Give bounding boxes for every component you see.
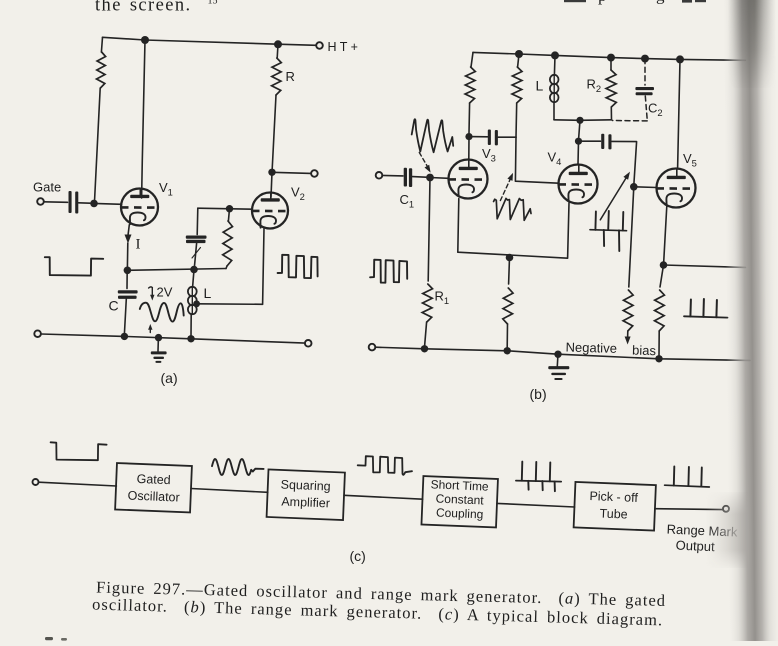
- svg-text:H T +: H T +: [328, 40, 358, 54]
- svg-text:Gated: Gated: [136, 472, 171, 487]
- label 2V with arrows: [148, 285, 173, 333]
- label I (cathode current): [136, 237, 141, 253]
- node rail-R junction (a): [274, 40, 282, 48]
- capacitor V3-V4 coupling: [488, 130, 498, 146]
- node V5 cathode junction: [660, 261, 668, 269]
- wire to range mark output: [655, 508, 723, 511]
- resistor V5 grid-leak to bias: [623, 187, 634, 345]
- waveform range marks (c): [665, 467, 710, 488]
- svg-text:15: 15: [208, 0, 218, 7]
- svg-text:I: I: [136, 237, 141, 253]
- wire V4 plate node to coupling cap 2: [579, 140, 601, 142]
- block Pick-off Tube: [574, 482, 656, 531]
- tube V5: [657, 169, 696, 208]
- capacitor grid coupling V2: [186, 208, 207, 267]
- svg-text:Squaring: Squaring: [280, 478, 331, 494]
- wire capacitor to grid node: [79, 202, 91, 204]
- label C1: [400, 192, 415, 210]
- svg-text:C: C: [109, 298, 119, 314]
- node rail-L junction (b): [551, 51, 559, 59]
- node V5 grid junction: [630, 183, 638, 191]
- resistor R1: [422, 178, 432, 347]
- svg-text:R: R: [286, 69, 295, 84]
- node V3 plate junction: [465, 133, 472, 140]
- wire plate node to V3: [468, 137, 470, 160]
- wire coupling cap to grid line: [498, 136, 516, 138]
- caption line 2: [92, 595, 663, 630]
- node rail-R2grid junction (b): [515, 50, 523, 58]
- wire L bottom to tank node: [554, 119, 580, 122]
- node bias junction: [506, 254, 514, 262]
- wire V5 cathode output: [664, 265, 746, 267]
- svg-text:g: g: [656, 0, 665, 5]
- wire V5 plate to rail: [678, 59, 680, 168]
- terminal rail right (a): [305, 340, 312, 347]
- resistor V5 cathode load: [655, 265, 665, 356]
- waveform square input (b): [370, 260, 407, 283]
- capacitor V4-V5 coupling: [601, 134, 611, 150]
- terminal input (b): [376, 172, 383, 179]
- terminal Gate input: [37, 198, 44, 205]
- label (a): [161, 370, 178, 386]
- label (b): [530, 386, 547, 402]
- node V2 grid junction: [226, 205, 233, 212]
- resistor V2 grid-leak: [223, 209, 233, 269]
- wire grid node to V5: [634, 186, 657, 189]
- label L (a): [204, 285, 212, 301]
- label R: [286, 69, 295, 84]
- wire input to C1: [382, 174, 403, 177]
- node rail-R2 junction (b): [607, 54, 615, 62]
- waveform square (c): [358, 456, 412, 475]
- wire rail to V1 plate: [142, 40, 145, 198]
- wire HT+ rail (a): [103, 37, 317, 45]
- node V3 grid junction (b): [426, 174, 434, 182]
- label V1: [159, 180, 173, 198]
- terminal rail left (b): [369, 344, 376, 351]
- wire V2 grid bus: [198, 208, 252, 209]
- resistor common cathode bias: [503, 258, 513, 348]
- waveform sawtooth at V4 grid: [494, 198, 531, 220]
- label Negative bias: [565, 340, 656, 359]
- label Gate: [33, 180, 61, 195]
- node rail-C2 junction (b): [641, 55, 649, 63]
- waveform pulses at V5 grid: [590, 211, 627, 251]
- node V1 grid junction: [90, 200, 98, 208]
- label V5: [683, 151, 697, 169]
- waveform 2V sine in tank: [140, 303, 184, 322]
- svg-text:Amplifier: Amplifier: [281, 495, 330, 511]
- page text fragment top-left: [95, 0, 218, 16]
- node C to rail: [121, 333, 128, 340]
- wire to pick-off tube: [497, 503, 575, 507]
- inductor L (a): [188, 270, 197, 337]
- wire ground rail (a): [41, 334, 305, 343]
- ground symbol (b): [548, 354, 569, 380]
- block Short Time Constant Coupling: [421, 476, 497, 527]
- svg-text:Oscillator: Oscillator: [127, 488, 180, 504]
- wire coupling cap 2 to V5 grid corner: [612, 141, 637, 184]
- terminal output (c): [723, 506, 729, 512]
- caption line 1: [96, 578, 666, 610]
- waveform peaked input at V3 grid: [412, 119, 454, 152]
- svg-text:Gate: Gate: [33, 180, 61, 195]
- node rail-V1-plate junction (a): [141, 36, 149, 44]
- label L (b): [536, 78, 544, 94]
- wire cathode node to RC junction: [127, 269, 226, 271]
- node ground junction (b): [554, 351, 561, 358]
- node V1 cathode junction: [124, 267, 132, 275]
- waveform square output (a): [278, 255, 318, 278]
- svg-text:p: p: [598, 0, 607, 5]
- waveform gate pulse (a): [45, 257, 103, 275]
- ground symbol (a): [151, 338, 167, 363]
- wire ground rail (b): [375, 347, 750, 360]
- node R1 to rail: [421, 345, 428, 352]
- capacitor C2 (dashed tap): [613, 59, 655, 121]
- tube V3: [449, 160, 488, 199]
- wire V3 cathode to bias bracket: [458, 199, 569, 259]
- wire to squaring amplifier: [191, 489, 268, 493]
- label V4: [548, 150, 562, 168]
- page text fragment bottom-left: [45, 637, 67, 641]
- svg-text:bias: bias: [632, 343, 657, 359]
- svg-text:the screen.: the screen.: [95, 0, 192, 16]
- label C: [109, 298, 119, 314]
- resistor V4 grid-leak: [512, 54, 522, 137]
- label (c): [350, 548, 366, 564]
- wire gate input to capacitor: [44, 201, 68, 204]
- wire plate node to terminal: [272, 172, 311, 173]
- wire plate node to coupling cap: [469, 136, 488, 138]
- capacitor C (a): [118, 270, 138, 334]
- svg-text:(b): (b): [530, 386, 547, 402]
- waveform sine (c): [212, 459, 264, 475]
- wire HT+ rail (b): [473, 52, 746, 60]
- page edge shadow band: [706, 0, 778, 646]
- resistor R (a): [272, 44, 282, 169]
- svg-text:L: L: [536, 78, 544, 94]
- capacitor gate coupling (a): [69, 191, 79, 214]
- terminal HT+ (a): [316, 42, 323, 49]
- inductor L (b): [550, 55, 559, 119]
- label HT+: [328, 40, 358, 54]
- wire input to gated oscillator: [39, 482, 117, 486]
- waveform sharp pulses (c): [516, 462, 561, 492]
- svg-text:(a): (a): [161, 370, 178, 386]
- capacitor C1: [404, 168, 412, 187]
- svg-text:(c): (c): [350, 548, 366, 564]
- wire L tap to V2 cathode: [197, 229, 264, 305]
- terminal rail left (a): [34, 330, 41, 337]
- terminal (a) output: [311, 170, 318, 177]
- wire grid node to V1: [94, 202, 122, 205]
- resistor grid-leak (a, unlabelled): [95, 37, 106, 199]
- label R1: [435, 289, 450, 307]
- tube V1: [121, 189, 158, 226]
- wire R2 bottom to tank node: [580, 119, 612, 122]
- svg-text:2V: 2V: [157, 285, 173, 300]
- svg-text:Coupling: Coupling: [436, 506, 484, 522]
- wire tank node to V4 plate: [579, 120, 580, 139]
- wire V5 cathode down: [664, 206, 667, 262]
- wire grid node to V3: [430, 177, 448, 180]
- tube V4: [559, 165, 598, 204]
- node tank junction (b): [576, 117, 583, 124]
- node V5 cathode resistor to rail: [655, 355, 662, 362]
- svg-text:Negative: Negative: [565, 340, 617, 356]
- label C2: [648, 101, 663, 119]
- block Gated Oscillator: [115, 463, 192, 512]
- resistor V3 plate load: [465, 52, 475, 133]
- arrow waveform to grid node (dashed): [419, 153, 430, 173]
- node L to rail: [187, 335, 194, 342]
- node rail-V5 junction (b): [676, 55, 684, 63]
- label V2: [291, 185, 305, 203]
- wire V2 plate lead: [271, 172, 272, 197]
- wire node to V4 plate: [577, 141, 580, 164]
- waveform gate pulse (c): [51, 442, 107, 460]
- svg-text:Pick - off: Pick - off: [589, 489, 638, 505]
- svg-text:Tube: Tube: [599, 506, 628, 521]
- terminal input (c): [33, 479, 39, 485]
- arrow pulses to V5 grid: [600, 172, 630, 220]
- page text fragment top-right: [564, 0, 706, 5]
- node V2 plate junction: [268, 169, 275, 176]
- node L tap: [193, 300, 200, 307]
- node bias resistor to rail: [504, 347, 511, 354]
- node ground junction (a): [155, 334, 162, 341]
- label Range Mark Output: [666, 522, 738, 555]
- node oscillator tank junction: [190, 266, 198, 274]
- stray pencil tick: [192, 248, 201, 259]
- block Squaring Amplifier: [267, 469, 345, 520]
- node V4 plate cap tap: [575, 138, 582, 145]
- svg-text:L: L: [204, 285, 212, 301]
- resistor R2: [606, 58, 616, 120]
- tube V2: [252, 193, 288, 229]
- waveform output spikes (b): [684, 299, 728, 318]
- arrow sawtooth to V4 grid (dashed): [500, 173, 513, 201]
- label V3: [482, 146, 496, 164]
- label R2: [587, 77, 602, 95]
- wire C1 to grid node: [412, 176, 426, 179]
- wire V1 cathode lead with arrow I: [125, 225, 132, 267]
- wire grid line down to V4 grid: [515, 137, 558, 183]
- wire to short time constant coupling: [344, 495, 423, 499]
